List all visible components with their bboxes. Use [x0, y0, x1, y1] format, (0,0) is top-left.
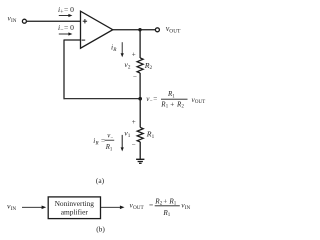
current label iR	[111, 43, 117, 54]
svg-text:1: 1	[168, 213, 171, 218]
svg-text:+: +	[132, 118, 136, 126]
output terminal	[155, 28, 159, 32]
arrow for i+	[59, 14, 73, 17]
R1 value label	[146, 130, 155, 140]
svg-text:OUT: OUT	[169, 28, 181, 34]
svg-text:+: +	[170, 100, 174, 108]
wire vIN to op-amp + input	[27, 20, 81, 22]
v2 polarity plus	[132, 51, 136, 59]
input terminal	[22, 19, 26, 23]
wire op-amp output	[113, 29, 155, 31]
svg-text:(b): (b)	[96, 224, 105, 233]
junction output node	[138, 28, 141, 31]
arrow out of block	[101, 206, 125, 210]
svg-text:amplifier: amplifier	[61, 207, 89, 216]
svg-text:1: 1	[166, 105, 169, 110]
arrow iR down	[121, 42, 124, 57]
v1 label	[124, 129, 131, 139]
svg-text:1: 1	[172, 94, 175, 99]
wire feedback vertical	[63, 40, 65, 100]
wire output node to R2	[139, 30, 141, 58]
caption (a)	[96, 176, 105, 185]
svg-text:= 0: = 0	[64, 5, 74, 14]
svg-text:OUT: OUT	[133, 205, 144, 211]
node v- equation label	[146, 90, 205, 110]
svg-text:1: 1	[110, 147, 113, 152]
v2 label	[124, 60, 130, 70]
arrow iR down at R1	[121, 135, 124, 152]
svg-text:1: 1	[152, 134, 155, 140]
block Noninverting amplifier	[48, 197, 100, 219]
caption (b)	[96, 224, 105, 233]
svg-text:2: 2	[128, 65, 131, 71]
current label i- = 0	[58, 23, 74, 34]
svg-text:+: +	[132, 51, 136, 59]
svg-text:2: 2	[182, 105, 185, 110]
svg-text:=: =	[149, 201, 153, 210]
wire node to R1	[139, 99, 141, 128]
svg-text:2: 2	[150, 65, 153, 71]
node vOUT label	[166, 24, 181, 34]
arrow into block	[22, 206, 46, 210]
svg-text:OUT: OUT	[195, 100, 205, 105]
svg-text:R: R	[112, 47, 117, 53]
svg-text:−: −	[132, 141, 136, 149]
block output equation	[130, 197, 191, 218]
svg-text:=: =	[153, 95, 157, 103]
block diagram vIN label	[7, 202, 16, 212]
svg-text:= 0: = 0	[64, 23, 74, 32]
wire R2 to node	[139, 73, 141, 99]
node vIN label	[8, 14, 17, 25]
R2 value label	[144, 61, 153, 71]
svg-text:−: −	[133, 73, 137, 81]
arrow for i-	[59, 32, 73, 35]
svg-text:+: +	[163, 197, 167, 205]
resistor R1	[137, 127, 143, 141]
svg-text:IN: IN	[11, 18, 17, 24]
current label iR = v-/R1	[93, 133, 114, 153]
ground	[136, 159, 144, 163]
wire R1 to ground	[139, 142, 141, 159]
v1 polarity minus	[132, 141, 136, 149]
v2 polarity minus	[133, 73, 137, 81]
wire feedback horizontal to node	[64, 98, 141, 100]
op-amp U1	[81, 11, 113, 48]
svg-text:(a): (a)	[96, 176, 105, 185]
svg-text:R: R	[95, 141, 99, 146]
svg-text:IN: IN	[185, 205, 191, 211]
svg-text:=: =	[101, 137, 105, 145]
svg-text:IN: IN	[11, 206, 17, 212]
v1 polarity plus	[132, 118, 136, 126]
svg-text:1: 1	[128, 133, 131, 139]
current label i+ = 0	[58, 5, 74, 16]
junction feedback node	[138, 97, 142, 101]
wire feedback to - input	[64, 39, 81, 41]
resistor R2	[137, 58, 143, 73]
